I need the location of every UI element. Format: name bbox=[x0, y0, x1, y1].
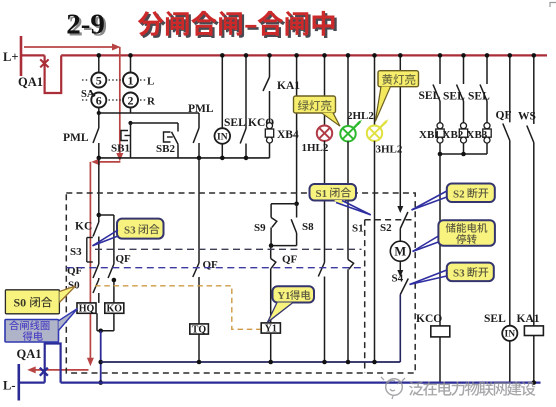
svg-text:HQ: HQ bbox=[79, 303, 95, 314]
svg-text:L: L bbox=[147, 76, 154, 88]
svg-text:S9: S9 bbox=[254, 222, 266, 234]
svg-text:1HL2: 1HL2 bbox=[302, 142, 329, 154]
svg-text:QF: QF bbox=[116, 253, 132, 265]
svg-text:QA1: QA1 bbox=[17, 347, 42, 361]
svg-text:PML: PML bbox=[63, 132, 89, 144]
svg-text:TQ: TQ bbox=[192, 324, 207, 335]
svg-text:2: 2 bbox=[128, 93, 134, 107]
svg-text:S3: S3 bbox=[453, 267, 465, 279]
svg-text:S2: S2 bbox=[380, 222, 392, 234]
svg-text:XB1: XB1 bbox=[419, 129, 440, 141]
svg-text:SEL: SEL bbox=[468, 91, 490, 103]
svg-text:S8: S8 bbox=[302, 221, 314, 233]
svg-text:SEL: SEL bbox=[419, 90, 441, 102]
svg-text:Y1: Y1 bbox=[265, 323, 277, 334]
svg-text:SEL: SEL bbox=[484, 313, 506, 325]
svg-text:QF: QF bbox=[496, 110, 512, 122]
svg-text:R: R bbox=[147, 96, 156, 108]
svg-text:SB1: SB1 bbox=[111, 143, 130, 155]
svg-text:L-: L- bbox=[3, 379, 16, 393]
svg-text:S2: S2 bbox=[453, 188, 465, 200]
svg-text:M: M bbox=[394, 245, 406, 259]
svg-text:KC: KC bbox=[75, 221, 92, 233]
svg-text:KO: KO bbox=[107, 303, 123, 314]
svg-text:S1: S1 bbox=[352, 223, 364, 235]
svg-text:6: 6 bbox=[96, 93, 102, 107]
svg-text:XB2: XB2 bbox=[443, 129, 464, 141]
svg-text:KCO: KCO bbox=[416, 313, 442, 325]
svg-text:3HL2: 3HL2 bbox=[376, 144, 403, 156]
svg-text:XB4: XB4 bbox=[277, 129, 299, 141]
svg-text:WS: WS bbox=[518, 111, 536, 123]
svg-text:S3: S3 bbox=[70, 246, 82, 258]
svg-text:KA1: KA1 bbox=[517, 313, 540, 325]
svg-text:S4: S4 bbox=[392, 273, 404, 285]
svg-text:SEL: SEL bbox=[224, 117, 246, 129]
svg-text:PML: PML bbox=[188, 103, 214, 115]
svg-text:S3: S3 bbox=[124, 225, 136, 237]
svg-text:S0: S0 bbox=[14, 296, 27, 310]
svg-text:2-9: 2-9 bbox=[66, 8, 105, 40]
svg-text:QF: QF bbox=[282, 254, 298, 266]
svg-text:1: 1 bbox=[128, 73, 134, 87]
svg-text:S1: S1 bbox=[316, 188, 328, 200]
svg-text:IN: IN bbox=[505, 330, 516, 340]
svg-text:XB3: XB3 bbox=[467, 129, 488, 141]
svg-text:IN: IN bbox=[217, 133, 228, 143]
svg-text:2HL2: 2HL2 bbox=[347, 110, 374, 122]
svg-text:SEL: SEL bbox=[443, 91, 465, 103]
svg-text:SB2: SB2 bbox=[156, 143, 175, 155]
svg-text:L+: L+ bbox=[3, 50, 18, 64]
svg-text:QA1: QA1 bbox=[18, 75, 43, 89]
svg-text:Y1: Y1 bbox=[278, 291, 291, 302]
svg-text:QF: QF bbox=[203, 259, 219, 271]
svg-text:5: 5 bbox=[96, 73, 102, 87]
svg-text:QF: QF bbox=[67, 265, 83, 277]
